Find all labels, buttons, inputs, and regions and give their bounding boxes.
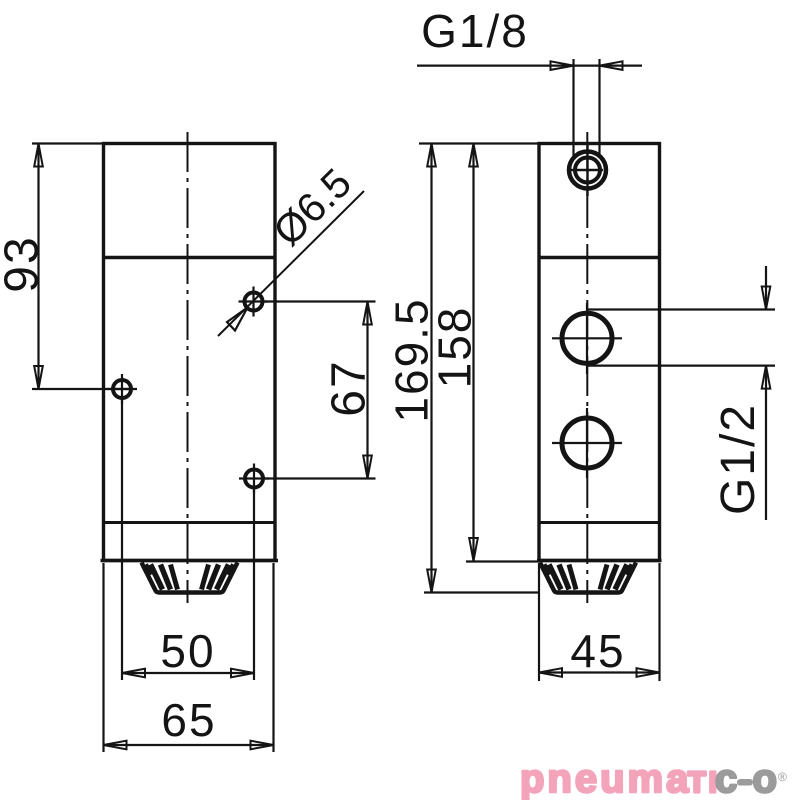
svg-text:®: ® [778,770,787,784]
svg-text:93: 93 [0,235,49,292]
svg-text:G1/2: G1/2 [712,403,765,515]
svg-text:67: 67 [323,359,376,416]
svg-text:Ø6.5: Ø6.5 [264,159,360,254]
svg-text:o: o [753,757,777,800]
svg-text:c: c [715,757,737,800]
svg-text:45: 45 [570,625,625,677]
svg-text:65: 65 [161,694,216,746]
svg-text:50: 50 [160,625,215,677]
svg-text:158: 158 [429,306,481,389]
svg-text:G1/8: G1/8 [421,5,529,57]
svg-text:pneuma: pneuma [520,757,691,800]
